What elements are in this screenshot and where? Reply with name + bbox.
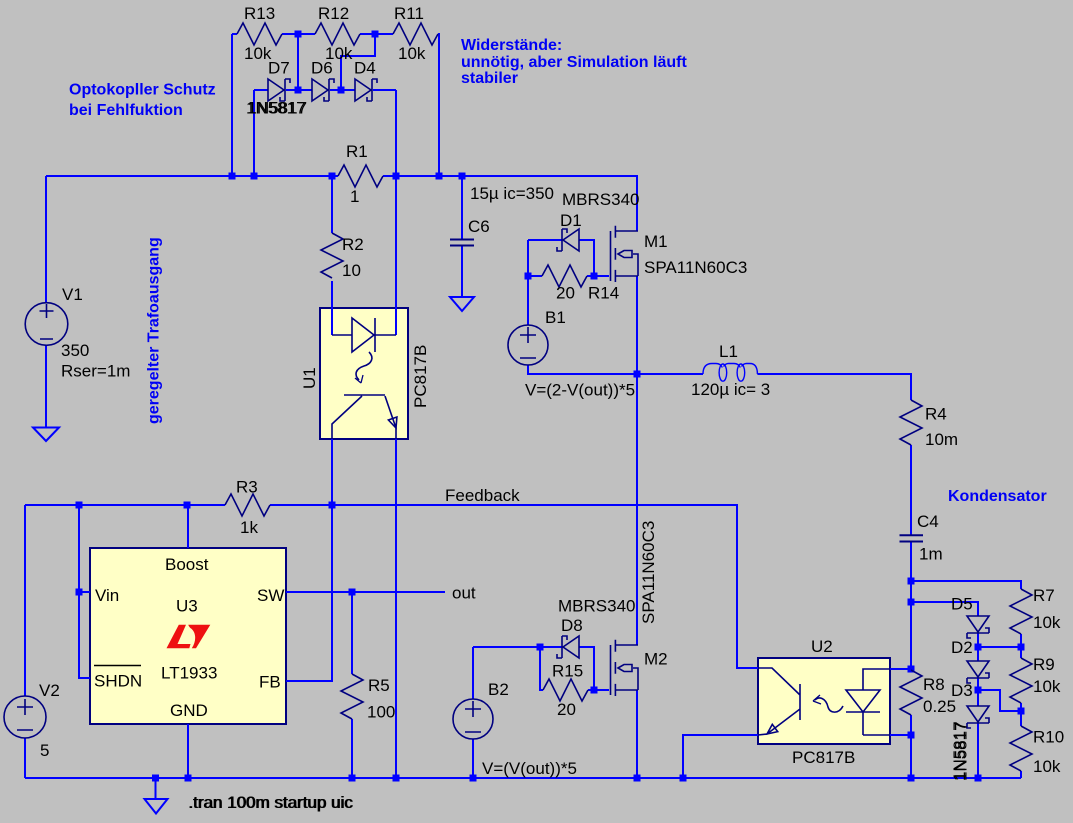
svg-text:R9: R9 — [1033, 655, 1055, 674]
svg-text:120µ ic= 3: 120µ ic= 3 — [691, 380, 770, 399]
svg-text:1m: 1m — [919, 545, 943, 564]
svg-text:LT1933: LT1933 — [161, 664, 217, 683]
svg-text:15µ ic=350: 15µ ic=350 — [470, 184, 554, 203]
svg-text:SPA11N60C3: SPA11N60C3 — [639, 521, 658, 624]
svg-text:R5: R5 — [368, 676, 390, 695]
svg-text:D8: D8 — [561, 616, 583, 635]
svg-text:stabiler: stabiler — [461, 70, 518, 87]
svg-text:R1: R1 — [346, 142, 368, 161]
svg-text:5: 5 — [40, 741, 49, 760]
svg-text:out: out — [452, 584, 476, 603]
svg-text:Vin: Vin — [95, 586, 119, 605]
svg-text:1: 1 — [350, 187, 359, 206]
svg-text:10m: 10m — [925, 430, 958, 449]
svg-text:M2: M2 — [644, 650, 668, 669]
svg-text:GND: GND — [170, 701, 208, 720]
svg-text:100: 100 — [367, 703, 395, 722]
svg-text:R12: R12 — [318, 4, 349, 23]
svg-text:U2: U2 — [811, 637, 833, 656]
svg-text:R11: R11 — [394, 4, 424, 23]
svg-text:20: 20 — [557, 700, 576, 719]
svg-text:350: 350 — [61, 341, 89, 360]
svg-text:U1: U1 — [300, 367, 319, 389]
svg-text:C6: C6 — [468, 217, 490, 236]
svg-text:D5: D5 — [951, 595, 973, 614]
svg-text:10k: 10k — [398, 44, 426, 63]
svg-text:D1: D1 — [560, 211, 582, 230]
svg-text:Optokopller Schutz: Optokopller Schutz — [69, 82, 216, 99]
svg-text:unnötig, aber Simulation läuft: unnötig, aber Simulation läuft — [461, 54, 687, 71]
svg-text:.tran 100m startup uic: .tran 100m startup uic — [189, 793, 354, 812]
svg-text:20: 20 — [556, 284, 575, 303]
svg-text:Kondensator: Kondensator — [948, 488, 1047, 505]
svg-text:B1: B1 — [545, 308, 566, 327]
svg-text:R14: R14 — [588, 284, 619, 303]
svg-text:R7: R7 — [1033, 586, 1055, 605]
svg-text:PC817B: PC817B — [411, 345, 430, 408]
svg-text:D2: D2 — [951, 638, 973, 657]
svg-text:Feedback: Feedback — [445, 486, 520, 505]
svg-text:R3: R3 — [236, 478, 258, 497]
svg-text:1k: 1k — [240, 518, 258, 537]
svg-text:10k: 10k — [1033, 613, 1061, 632]
svg-text:B2: B2 — [488, 680, 509, 699]
svg-text:R10: R10 — [1033, 728, 1064, 747]
svg-text:D3: D3 — [951, 681, 973, 700]
svg-text:geregelter Trafoausgang: geregelter Trafoausgang — [146, 237, 163, 424]
svg-text:SW: SW — [257, 586, 284, 605]
svg-text:D4: D4 — [354, 59, 376, 78]
svg-text:MBRS340: MBRS340 — [562, 190, 639, 209]
svg-text:L1: L1 — [719, 342, 738, 361]
svg-text:FB: FB — [259, 673, 281, 692]
svg-text:D6: D6 — [311, 59, 333, 78]
svg-text:V1: V1 — [62, 285, 83, 304]
svg-text:V=(2-V(out))*5: V=(2-V(out))*5 — [525, 381, 635, 400]
svg-text:10k: 10k — [1033, 757, 1061, 776]
svg-text:10k: 10k — [1033, 677, 1061, 696]
svg-text:M1: M1 — [644, 232, 668, 251]
svg-text:R2: R2 — [342, 235, 364, 254]
svg-text:R15: R15 — [552, 662, 583, 681]
svg-text:10: 10 — [342, 261, 361, 280]
svg-text:SPA11N60C3: SPA11N60C3 — [644, 258, 747, 277]
svg-text:bei Fehlfuktion: bei Fehlfuktion — [69, 102, 183, 119]
svg-text:SHDN: SHDN — [94, 672, 142, 691]
svg-text:D7: D7 — [268, 59, 290, 78]
svg-text:1N5817: 1N5817 — [952, 721, 971, 781]
svg-text:Rser=1m: Rser=1m — [61, 362, 130, 381]
svg-text:PC817B: PC817B — [792, 748, 855, 767]
svg-text:R13: R13 — [244, 4, 275, 23]
svg-text:V2: V2 — [39, 681, 60, 700]
svg-text:MBRS340: MBRS340 — [558, 597, 635, 616]
svg-text:V=(V(out))*5: V=(V(out))*5 — [482, 759, 577, 778]
svg-text:Boost: Boost — [165, 555, 209, 574]
svg-text:R4: R4 — [925, 405, 947, 424]
svg-text:Widerstände:: Widerstände: — [461, 37, 562, 54]
svg-text:U3: U3 — [176, 597, 198, 616]
svg-text:R8: R8 — [923, 675, 945, 694]
svg-text:1N5817: 1N5817 — [248, 99, 308, 118]
svg-text:C4: C4 — [917, 512, 939, 531]
